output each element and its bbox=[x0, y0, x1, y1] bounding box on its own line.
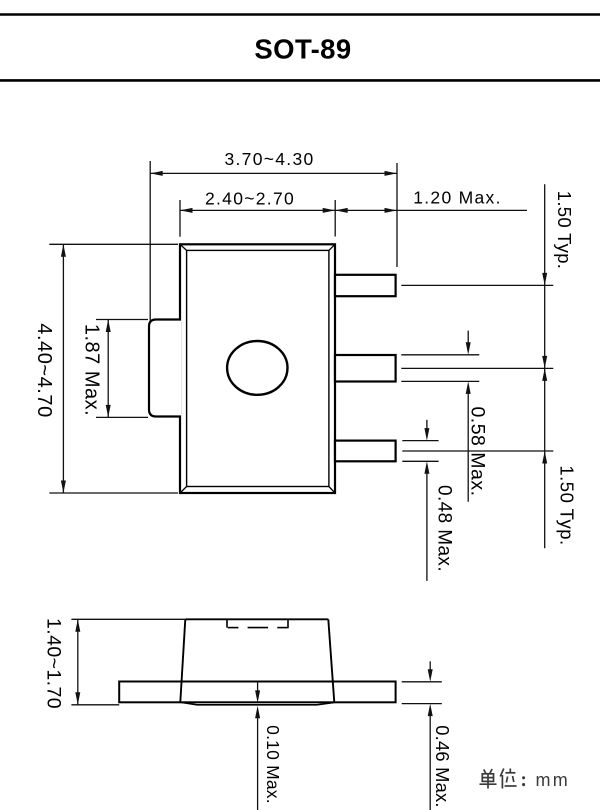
lead 2 centre extension line bbox=[401, 367, 553, 369]
dim 3.70~4.30 extension line right (lead tips) bbox=[396, 163, 398, 267]
title rule top bbox=[0, 13, 600, 16]
dim 1.50 Typ vertical line bbox=[544, 184, 546, 548]
dim 1.87 extension line top bbox=[96, 319, 148, 321]
svg-text:SOT-89: SOT-89 bbox=[254, 34, 351, 65]
svg-text:1.50 Typ.: 1.50 Typ. bbox=[557, 465, 578, 545]
dim 0.10 lower arrow and leader bbox=[257, 717, 259, 810]
dim 1.40~1.70 extension line bottom bbox=[71, 704, 119, 706]
top notch hidden bottom (dashed) bbox=[228, 627, 239, 629]
svg-text:0.48 Max.: 0.48 Max. bbox=[434, 485, 455, 572]
svg-text:1.40~1.70: 1.40~1.70 bbox=[43, 618, 65, 709]
dim 0.48 extension line top (lead3 top edge) bbox=[402, 440, 438, 442]
side view seating plate (leads/tab plane) bbox=[119, 682, 395, 703]
dim 0.58 extension line top (lead2 top edge) bbox=[401, 354, 479, 356]
dim 0.46 extension line bottom bbox=[402, 703, 442, 705]
dim 3.70~4.30 dimension line bbox=[150, 172, 397, 174]
dim 0.46 upper arrow bbox=[429, 661, 431, 671]
lead 3 centre extension line bbox=[402, 450, 553, 452]
side view body bottom edge bbox=[180, 702, 334, 705]
dim 2.40~2.70 extension line left (body left edge) bbox=[179, 200, 181, 237]
svg-text:0.58 Max.: 0.58 Max. bbox=[466, 406, 488, 496]
lead 1 (top right) bbox=[335, 275, 396, 296]
svg-text:1.20 Max.: 1.20 Max. bbox=[413, 188, 502, 208]
dim 0.58 upper arrow bbox=[467, 331, 469, 344]
svg-text:0.46 Max.: 0.46 Max. bbox=[432, 725, 453, 808]
dim 4.40~4.70 extension line bottom bbox=[49, 492, 178, 494]
pin-1 index circle bbox=[227, 341, 287, 395]
dim 1.40~1.70 dimension line bbox=[77, 619, 79, 705]
svg-text:mm: mm bbox=[536, 770, 570, 790]
lead 1 centre extension line bbox=[401, 284, 553, 286]
svg-text:2.40~2.70: 2.40~2.70 bbox=[205, 188, 295, 208]
dim 1.87 extension line bottom bbox=[96, 416, 148, 418]
svg-text:3.70~4.30: 3.70~4.30 bbox=[224, 149, 314, 169]
dim 0.48 lower arrow bbox=[426, 472, 428, 581]
dim 1.87 dimension line bbox=[107, 320, 109, 418]
side view body top edge bbox=[185, 618, 328, 620]
dim 0.46 extension line top bbox=[402, 681, 442, 683]
dim 0.10 upper arrow bbox=[257, 682, 259, 692]
dim 1.40~1.70 extension line top bbox=[71, 618, 185, 620]
svg-text:0.10 Max.: 0.10 Max. bbox=[263, 725, 283, 804]
dim 4.40~4.70 extension line top bbox=[49, 243, 178, 245]
dimension line 2.40~2.70 / 1.20 Max bbox=[180, 209, 527, 211]
title rule bottom bbox=[0, 79, 600, 82]
dim 0.46 lower arrow and leader bbox=[429, 714, 431, 810]
lead 2 (middle right) bbox=[335, 355, 396, 382]
side view body left flank bbox=[180, 619, 185, 702]
dim 0.58 extension line bottom (lead2 bottom edge) bbox=[401, 380, 479, 382]
top notch right wall bbox=[287, 619, 289, 627]
dim 0.48 upper arrow bbox=[426, 420, 428, 430]
mold draft corner chamfer lines bbox=[180, 244, 187, 250]
svg-text:4.40~4.70: 4.40~4.70 bbox=[33, 323, 55, 417]
package body outer outline (top view) bbox=[180, 244, 335, 493]
heat-sink tab on left side bbox=[149, 320, 181, 417]
lead 3 (bottom right) bbox=[335, 441, 396, 462]
package body inner outline (mold draft) bbox=[187, 250, 329, 486]
dim 0.58 lower arrow bbox=[467, 392, 469, 502]
dim 0.48 extension line bottom (lead3 bottom edge) bbox=[402, 460, 438, 462]
svg-text:1.87 Max.: 1.87 Max. bbox=[80, 324, 102, 416]
shared extension line at body right edge bbox=[334, 200, 336, 237]
units note: 单位 (hand-drawn glyphs) bbox=[480, 769, 497, 789]
svg-text:1.50 Typ.: 1.50 Typ. bbox=[554, 191, 575, 269]
dim 3.70~4.30 extension line left (tab tip) bbox=[149, 161, 151, 322]
side view body right flank bbox=[328, 619, 334, 702]
top notch left wall bbox=[226, 619, 228, 627]
dim 4.40~4.70 dimension line bbox=[62, 244, 64, 493]
